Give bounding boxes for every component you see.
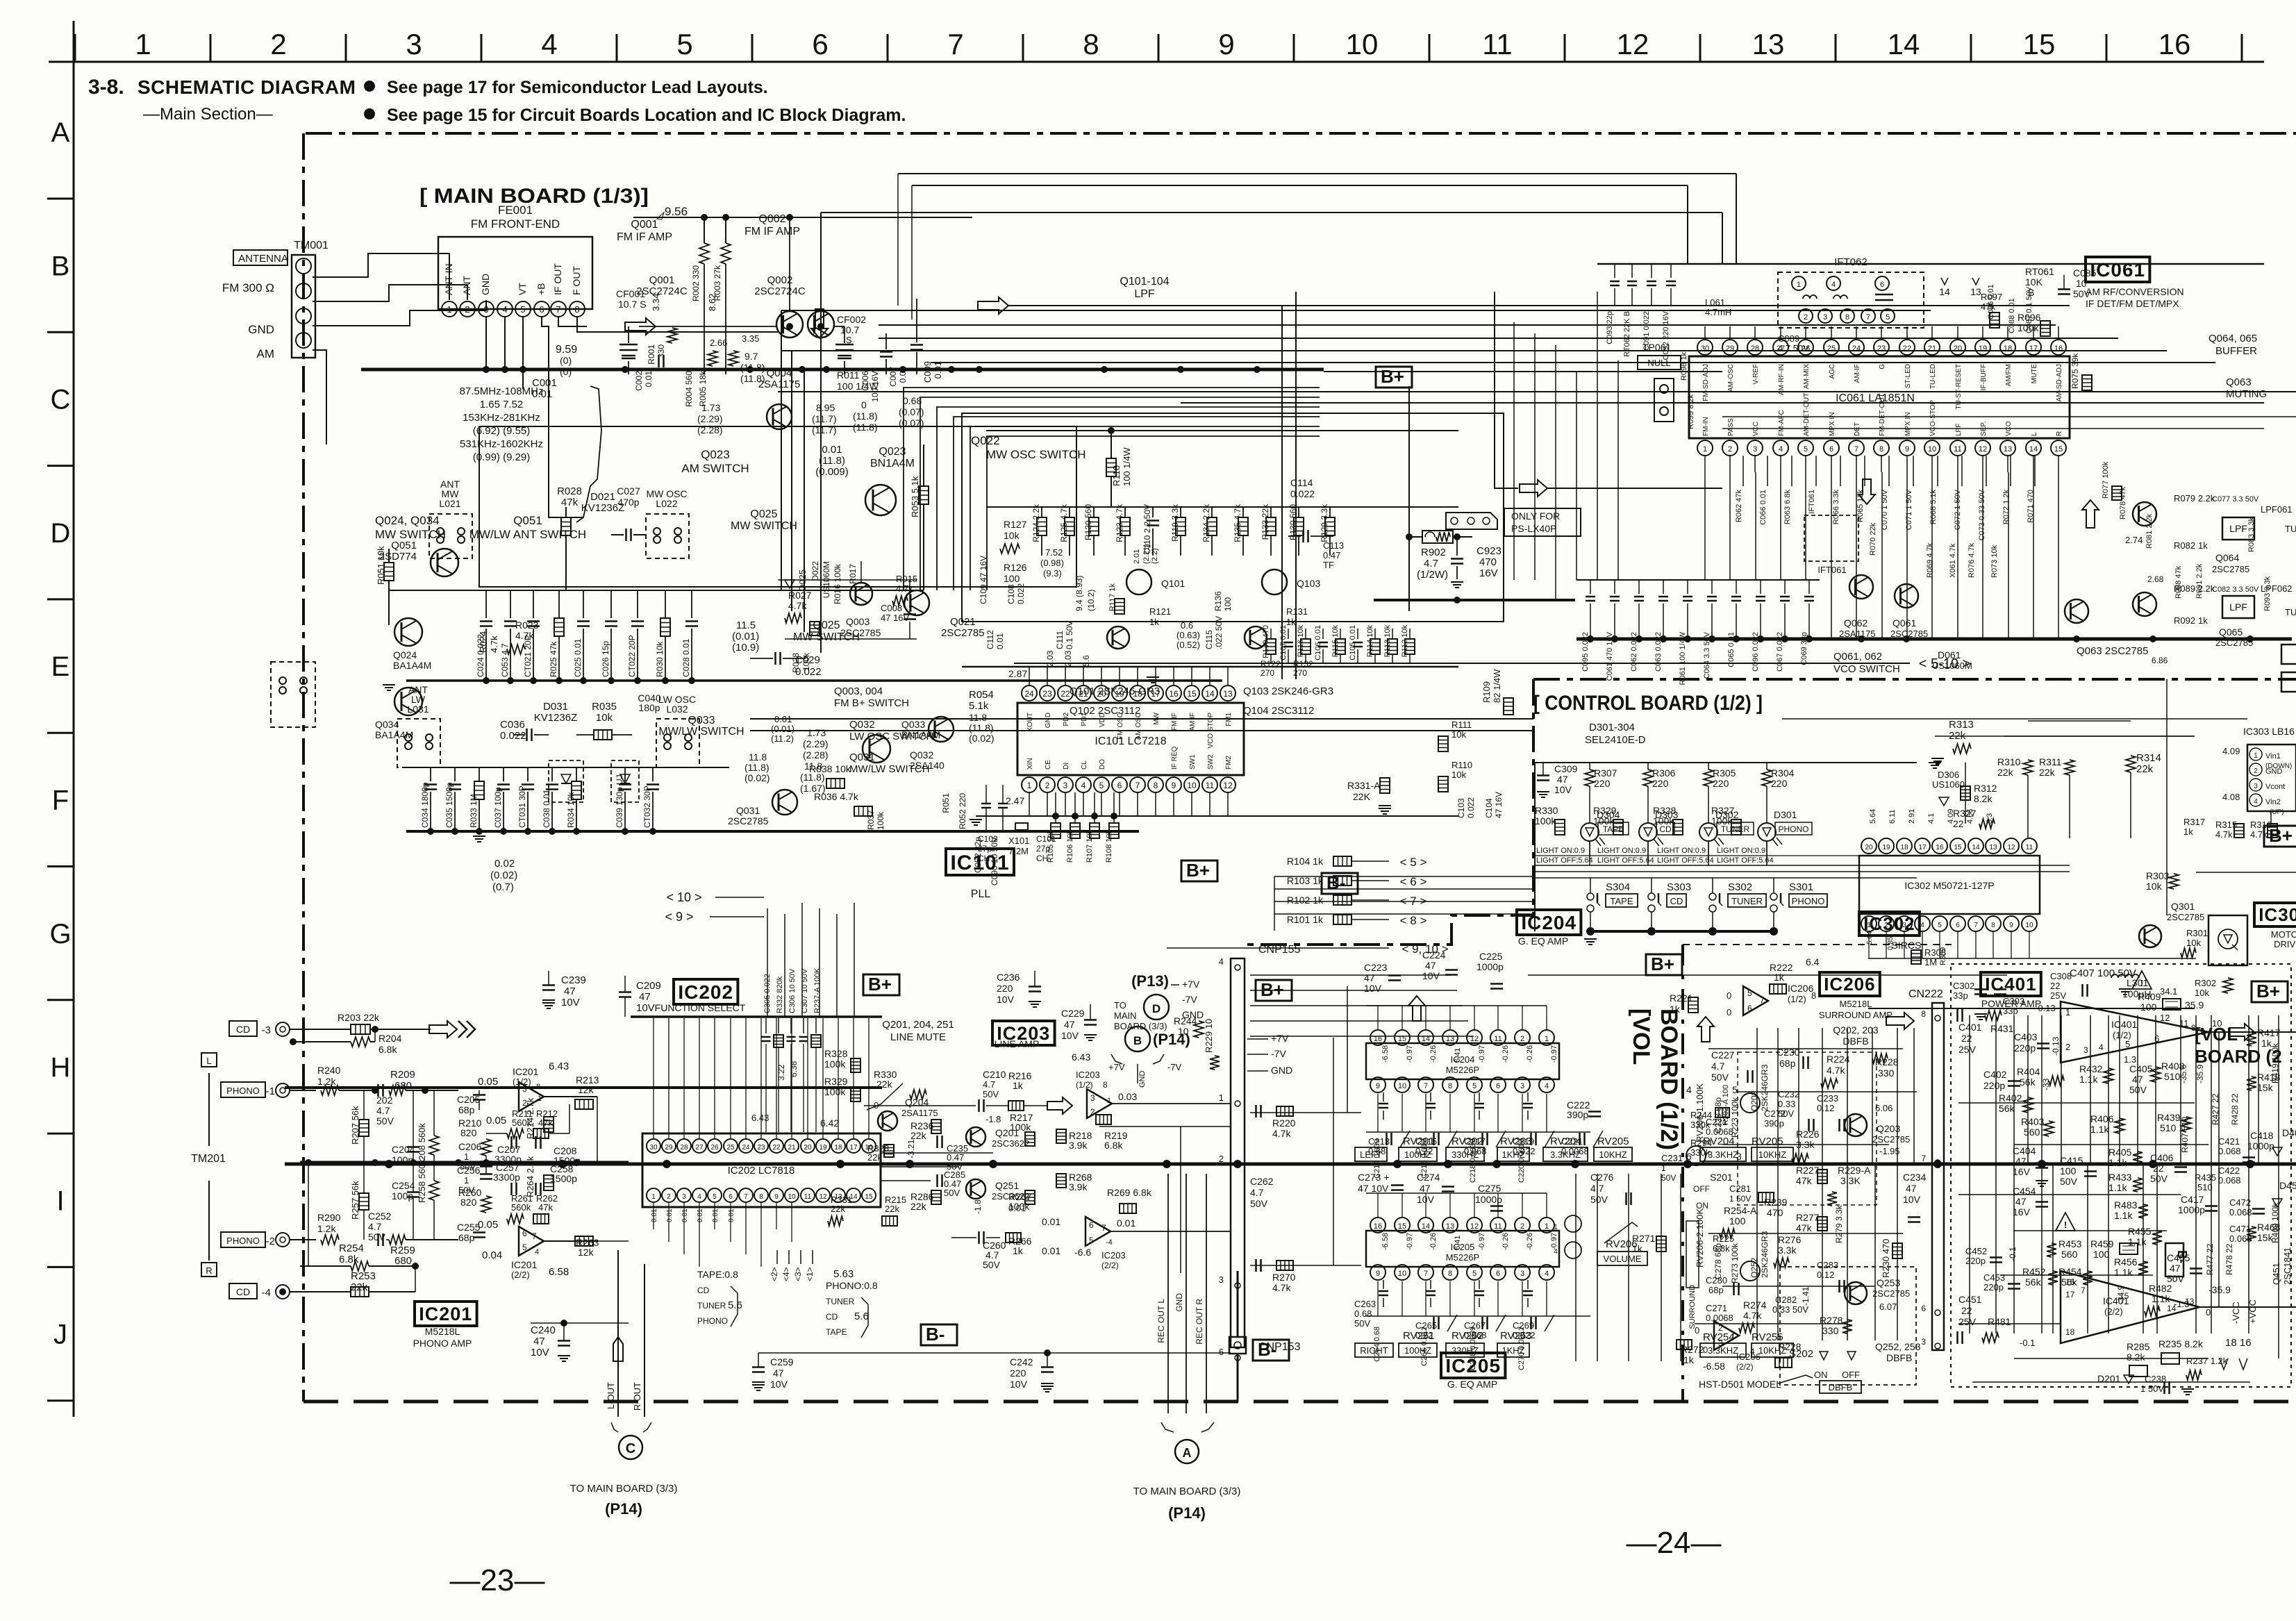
svg-text:TAPE: TAPE — [826, 1327, 847, 1337]
svg-text:RV205: RV205 — [1597, 1136, 1629, 1147]
svg-text:C267: C267 — [1464, 1320, 1486, 1331]
svg-text:29: 29 — [665, 1144, 673, 1152]
svg-text:R078 47k: R078 47k — [2119, 486, 2127, 519]
svg-text:R428 22: R428 22 — [2230, 1093, 2240, 1125]
svg-text:1k: 1k — [1683, 1354, 1695, 1365]
svg-text:16: 16 — [2054, 344, 2063, 353]
svg-text:< 8 >: < 8 > — [1400, 914, 1427, 927]
svg-text:FM-IN: FM-IN — [1702, 417, 1710, 436]
svg-text:R277: R277 — [1796, 1212, 1820, 1223]
svg-text:10V: 10V — [1061, 1030, 1079, 1041]
svg-text:2: 2 — [465, 304, 469, 315]
svg-text:SW1: SW1 — [1189, 754, 1197, 770]
svg-text:23: 23 — [1042, 689, 1052, 699]
svg-text:17: 17 — [1918, 844, 1927, 851]
svg-text:CT022 20P: CT022 20P — [627, 635, 637, 677]
svg-text:47: 47 — [533, 1336, 545, 1347]
svg-text:3.3KHZ: 3.3KHZ — [1708, 1345, 1738, 1356]
svg-text:CNP155: CNP155 — [1258, 944, 1301, 956]
IC401 output feedback wires — [2218, 1032, 2220, 1307]
MAIN BOARD outline left edge — [302, 133, 305, 1402]
svg-text:A: A — [51, 117, 70, 148]
svg-text:R481: R481 — [1988, 1316, 2011, 1327]
component drops row y 850-980 — [485, 590, 487, 618]
svg-text:820: 820 — [460, 1197, 477, 1208]
svg-text:5.64: 5.64 — [1869, 809, 1877, 824]
mid rail y=850 — [389, 590, 924, 591]
transistor Q104 — [1245, 626, 1267, 649]
svg-text:D: D — [1152, 1002, 1161, 1015]
svg-text:R083 3.3k: R083 3.3k — [2247, 517, 2256, 552]
svg-text:(P14): (P14) — [605, 1500, 642, 1518]
svg-text:47: 47 — [2015, 1156, 2027, 1167]
IC303 label box — [2254, 903, 2296, 926]
svg-text:BA1A4M: BA1A4M — [393, 660, 431, 671]
svg-text:MPX IN: MPX IN — [1904, 413, 1912, 436]
svg-text:1: 1 — [1027, 781, 1032, 790]
svg-text:R082: R082 — [2174, 540, 2195, 551]
svg-text:MW: MW — [1153, 712, 1161, 724]
transistor Q001 — [776, 311, 803, 338]
svg-text:0.01: 0.01 — [644, 371, 654, 388]
page frame ruler lines — [73, 21, 75, 1417]
svg-text:1.1k: 1.1k — [2079, 1074, 2098, 1085]
svg-text:(10.2): (10.2) — [1086, 590, 1096, 611]
svg-text:2: 2 — [1520, 1035, 1524, 1043]
svg-text:F OUT: F OUT — [571, 266, 582, 295]
wire IF OUT arrow — [558, 317, 587, 326]
B+ box right edge — [2264, 826, 2296, 847]
svg-text:FM IF AMP: FM IF AMP — [617, 231, 672, 243]
svg-text:TUNER: TUNER — [697, 1301, 726, 1311]
control top rail — [1534, 763, 1536, 931]
IC101 bottom pin row — [1022, 777, 1037, 792]
IC202 right connection wires — [881, 1152, 993, 1154]
svg-text:22k: 22k — [910, 1201, 927, 1212]
svg-text:-0.26: -0.26 — [1526, 1045, 1534, 1063]
svg-text:4: 4 — [1081, 781, 1086, 790]
svg-text:VCO STOP: VCO STOP — [1207, 713, 1215, 749]
svg-text:CL: CL — [1081, 760, 1088, 770]
svg-text:4: 4 — [541, 28, 557, 60]
svg-text:11: 11 — [1482, 28, 1513, 60]
nested L feed bundle to LPF — [904, 388, 1320, 590]
svg-text:7: 7 — [1760, 995, 1765, 1005]
svg-text:100: 100 — [1223, 597, 1233, 611]
svg-text:MUTE: MUTE — [2031, 364, 2038, 384]
svg-text:< 9 >: < 9 > — [665, 910, 693, 924]
svg-text:LW: LW — [411, 694, 426, 705]
svg-text:G. EQ AMP: G. EQ AMP — [1518, 936, 1568, 947]
svg-text:DRIVE: DRIVE — [2274, 939, 2296, 949]
svg-text:-7V: -7V — [1182, 994, 1197, 1005]
svg-text:(9.3): (9.3) — [1043, 568, 1062, 579]
svg-text:0.04: 0.04 — [482, 1249, 502, 1261]
svg-text:R037: R037 — [866, 810, 876, 830]
op-amp IC203 2/2 — [1085, 1217, 1110, 1246]
svg-text:C034 1800p: C034 1800p — [420, 782, 430, 828]
svg-text:0.02: 0.02 — [494, 858, 515, 870]
svg-text:(11.7): (11.7) — [812, 424, 837, 435]
svg-text:0.022: 0.022 — [1466, 797, 1476, 818]
svg-text:(2/2): (2/2) — [2104, 1306, 2123, 1317]
svg-text:1: 1 — [1797, 281, 1801, 289]
svg-text:2SC3622: 2SC3622 — [992, 1138, 1029, 1149]
B P14 connector — [1125, 1026, 1150, 1051]
svg-text:<1>: <1> — [805, 1267, 815, 1281]
svg-text:FE001: FE001 — [498, 203, 533, 217]
svg-text:47: 47 — [639, 991, 651, 1003]
svg-text:R331-A: R331-A — [1347, 780, 1381, 791]
svg-text:12: 12 — [2007, 844, 2015, 851]
svg-text:4.7k: 4.7k — [1272, 1128, 1291, 1139]
svg-text:(0.02): (0.02) — [490, 870, 517, 881]
svg-text:D301-304: D301-304 — [1589, 722, 1635, 733]
bottom component row MW/LW y 1100-1197 — [430, 767, 431, 781]
svg-text:16: 16 — [1374, 1222, 1382, 1231]
svg-text:4.7k: 4.7k — [1272, 1282, 1291, 1293]
svg-text:C077 3.3 50V: C077 3.3 50V — [2212, 495, 2259, 504]
svg-text:1: 1 — [1703, 445, 1707, 454]
svg-text:R230 470: R230 470 — [1881, 1239, 1891, 1278]
svg-text:C404: C404 — [2013, 1145, 2036, 1156]
svg-text:11: 11 — [1494, 1035, 1501, 1043]
svg-text:B+: B+ — [2269, 825, 2293, 846]
svg-text:4: 4 — [1554, 1248, 1558, 1256]
svg-text:BOARD (2: BOARD (2 — [2195, 1046, 2282, 1067]
svg-text:6.43: 6.43 — [549, 1061, 569, 1072]
svg-text:20: 20 — [1954, 344, 1962, 353]
svg-text:R404: R404 — [2017, 1066, 2040, 1077]
inductor L031 dashed box — [397, 719, 440, 767]
svg-text:TU-LED: TU-LED — [1929, 364, 1937, 389]
svg-text:1k: 1k — [1013, 1245, 1024, 1256]
Q031 2SC2785 transistor — [772, 790, 797, 815]
svg-text:R028: R028 — [791, 653, 801, 673]
svg-text:(11.8): (11.8) — [853, 410, 878, 422]
svg-text:27: 27 — [695, 1144, 704, 1152]
svg-text:-0.26: -0.26 — [1526, 1233, 1534, 1250]
svg-text:LPF061: LPF061 — [2261, 504, 2293, 515]
svg-text:6: 6 — [522, 1229, 527, 1238]
svg-text:R121: R121 — [1149, 606, 1171, 617]
IC202 top pin row — [647, 1139, 660, 1153]
svg-text:R051: R051 — [941, 793, 951, 813]
svg-text:26: 26 — [710, 1144, 719, 1152]
svg-text:(P13): (P13) — [1131, 972, 1169, 990]
svg-text:531KHz-1602KHz: 531KHz-1602KHz — [460, 438, 543, 450]
trimmer caps row C265 C267 C269 — [1433, 1317, 1435, 1329]
svg-text:R092: R092 — [2174, 615, 2195, 626]
frequency brace — [576, 386, 601, 522]
svg-text:R227: R227 — [1796, 1165, 1820, 1176]
svg-text:R111: R111 — [1451, 720, 1472, 730]
svg-text:7: 7 — [947, 28, 963, 60]
caps row below IC204 — [1383, 1092, 1384, 1102]
R105-R108 resistors — [1055, 792, 1056, 823]
svg-text:PHONO AMP: PHONO AMP — [413, 1338, 472, 1349]
svg-text:R302: R302 — [2195, 978, 2216, 988]
svg-text:330: 330 — [1822, 1325, 1839, 1336]
svg-text:C307 10 50V: C307 10 50V — [801, 968, 809, 1013]
svg-text:R119 3.3k: R119 3.3k — [1170, 504, 1180, 542]
svg-text:Q024: Q024 — [393, 649, 417, 660]
svg-text:L032: L032 — [666, 704, 688, 715]
bus y864 to control area — [1374, 599, 1575, 601]
CD input jack -3 — [229, 1021, 257, 1036]
svg-text:R030 10k: R030 10k — [655, 641, 665, 677]
svg-text:20: 20 — [804, 1144, 812, 1152]
svg-text:-6.58: -6.58 — [1381, 1233, 1390, 1250]
svg-text:3: 3 — [1753, 445, 1757, 454]
svg-text:16V: 16V — [2013, 1206, 2031, 1217]
svg-text:24: 24 — [742, 1144, 750, 1152]
svg-text:8: 8 — [1921, 1009, 1926, 1019]
svg-text:-7V: -7V — [1167, 1062, 1182, 1072]
LPF subcircuit box — [962, 413, 1504, 622]
svg-text:(0.01): (0.01) — [771, 724, 795, 734]
svg-text:4.09: 4.09 — [1947, 809, 1955, 824]
IC302 area wires — [1935, 735, 2195, 737]
svg-text:100k: 100k — [2018, 322, 2039, 333]
svg-text:5: 5 — [1938, 922, 1942, 929]
svg-text:RV251: RV251 — [1403, 1330, 1435, 1342]
svg-text:B+: B+ — [1651, 954, 1674, 974]
svg-text:C417: C417 — [2181, 1194, 2204, 1205]
svg-text:2.66: 2.66 — [710, 338, 727, 348]
svg-text:Q301: Q301 — [2171, 901, 2195, 912]
svg-text:+B: +B — [535, 283, 547, 295]
svg-text:R316: R316 — [2250, 820, 2272, 830]
svg-text:16: 16 — [2065, 1277, 2075, 1287]
trimmer caps row C213 C215 C217 C219 C221 — [1386, 1133, 1388, 1145]
svg-text:ON: ON — [1814, 1370, 1828, 1380]
svg-text:5: 5 — [522, 1242, 527, 1252]
svg-text:47: 47 — [2170, 1263, 2181, 1274]
svg-text:3: 3 — [1219, 1274, 1224, 1285]
svg-text:MW OSC SWITCH: MW OSC SWITCH — [986, 448, 1086, 461]
svg-text:TAPE: TAPE — [1603, 824, 1624, 834]
svg-text:22: 22 — [772, 1144, 781, 1152]
svg-text:R097: R097 — [1981, 292, 2002, 302]
svg-text:50V: 50V — [983, 1089, 999, 1099]
resistor R002 — [699, 243, 709, 264]
svg-text:LPF: LPF — [2229, 523, 2247, 534]
svg-text:R005 18k: R005 18k — [698, 370, 708, 406]
svg-text:1000p: 1000p — [2247, 1140, 2274, 1152]
svg-text:6.06: 6.06 — [1875, 1103, 1892, 1113]
LED diodes D304 D303 D302 D301 — [1581, 823, 1599, 841]
svg-text:D: D — [51, 518, 71, 549]
svg-text:R456: R456 — [2114, 1256, 2138, 1267]
svg-text:B+: B+ — [1186, 860, 1210, 881]
IC061 label box — [2086, 257, 2149, 282]
IC203 to CNP wires — [1181, 1126, 1231, 1127]
svg-text:2: 2 — [1804, 313, 1808, 322]
svg-text:TM201: TM201 — [191, 1153, 226, 1165]
svg-text:D022: D022 — [810, 561, 820, 581]
svg-text:Q251: Q251 — [995, 1180, 1019, 1191]
svg-text:50V: 50V — [2060, 1176, 2078, 1187]
svg-text:22k: 22k — [2039, 767, 2056, 778]
svg-text:FM 300 Ω: FM 300 Ω — [222, 281, 274, 294]
switch bottom bus — [1590, 930, 1774, 933]
svg-text:R311: R311 — [2039, 756, 2062, 767]
IC061 area top rail — [1597, 263, 2264, 265]
wire into opamp1 — [864, 1105, 976, 1106]
svg-text:0.022: 0.022 — [1016, 583, 1026, 604]
svg-text:330: 330 — [656, 344, 666, 358]
FET Q103 — [1262, 570, 1287, 595]
svg-text:C111: C111 — [1055, 631, 1065, 649]
svg-text:6.8k: 6.8k — [1713, 1243, 1730, 1254]
svg-text:R069 4.7k: R069 4.7k — [1926, 542, 1934, 578]
svg-text:7: 7 — [556, 304, 560, 315]
svg-text:1: 1 — [538, 1095, 542, 1103]
svg-text:(0): (0) — [560, 366, 572, 377]
svg-text:C027: C027 — [617, 485, 640, 497]
svg-text:Q063: Q063 — [2226, 376, 2252, 388]
svg-text:DBFB: DBFB — [1842, 1036, 1868, 1047]
wire AM down — [313, 350, 326, 444]
caps left of IFT062 — [1614, 264, 1615, 278]
svg-text:C206: C206 — [458, 1141, 482, 1152]
svg-text:PHONO: PHONO — [226, 1086, 260, 1096]
bus MW/LW bottom — [406, 830, 1139, 833]
svg-text:10: 10 — [788, 1193, 796, 1201]
svg-text:D301: D301 — [1774, 809, 1797, 820]
svg-text:Q001: Q001 — [631, 219, 658, 231]
svg-text:2.47: 2.47 — [1006, 795, 1024, 806]
svg-text:7: 7 — [1424, 1082, 1428, 1090]
svg-text:6: 6 — [1921, 1304, 1926, 1313]
svg-text:23: 23 — [757, 1144, 765, 1152]
svg-text:25: 25 — [1827, 344, 1836, 353]
svg-text:0.01: 0.01 — [822, 444, 842, 456]
svg-text:24: 24 — [1024, 689, 1034, 699]
svg-text:L: L — [2031, 432, 2038, 436]
svg-text:470: 470 — [1767, 1207, 1783, 1218]
svg-text:R134 2.2k: R134 2.2k — [1201, 504, 1211, 542]
svg-text:CD: CD — [697, 1286, 710, 1295]
FE001 FM FRONT-END box — [438, 237, 592, 309]
svg-text:22k: 22k — [867, 1152, 882, 1163]
CONTROL BOARD outline left jog — [1242, 679, 1533, 945]
svg-text:C112: C112 — [985, 630, 995, 649]
svg-text:(0.02): (0.02) — [744, 772, 770, 783]
svg-text:16: 16 — [1169, 689, 1179, 699]
svg-text:C225: C225 — [1479, 951, 1503, 962]
svg-text:(1.67): (1.67) — [800, 783, 826, 794]
svg-text:PHONO: PHONO — [1792, 896, 1825, 906]
svg-text:IC302: IC302 — [1863, 913, 1915, 934]
svg-text:IC202 LC7818: IC202 LC7818 — [728, 1165, 795, 1177]
wire y250 y267 drops — [1736, 174, 1737, 264]
svg-text:VCO: VCO — [2005, 421, 2013, 436]
op-amp IC201 1/2 — [519, 1082, 544, 1111]
svg-text:0.68: 0.68 — [1354, 1308, 1372, 1319]
svg-text:47k: 47k — [1796, 1222, 1813, 1233]
svg-text:C213: C213 — [1368, 1136, 1390, 1147]
svg-text:4.7: 4.7 — [983, 1079, 995, 1090]
svg-text:-4: -4 — [1106, 1238, 1113, 1247]
svg-text:IF-BUFF: IF-BUFF — [1980, 364, 1988, 390]
svg-text:PD1: PD1 — [1081, 713, 1088, 726]
svg-text:R204: R204 — [378, 1033, 402, 1044]
control matrix verticals — [1589, 841, 1590, 865]
svg-text:4: 4 — [1686, 1084, 1692, 1095]
svg-text:47: 47 — [1425, 960, 1436, 971]
svg-text:GND: GND — [248, 323, 274, 336]
svg-text:10k: 10k — [1451, 770, 1466, 780]
svg-text:GND: GND — [1271, 1065, 1292, 1076]
svg-text:R433: R433 — [2108, 1172, 2132, 1183]
svg-text:10: 10 — [1928, 445, 1936, 454]
svg-text:220p: 220p — [2014, 1042, 2036, 1054]
svg-text:6: 6 — [812, 28, 828, 60]
svg-text:R254: R254 — [339, 1242, 364, 1254]
top ruler column ticks and numbers — [74, 34, 76, 62]
IC061 top pin row — [1697, 340, 1713, 355]
svg-text:9: 9 — [1218, 28, 1234, 60]
svg-text:ANT: ANT — [461, 276, 472, 295]
svg-text:Q033: Q033 — [901, 719, 925, 730]
svg-text:LINE AMP: LINE AMP — [995, 1038, 1040, 1049]
svg-text:22K: 22K — [1353, 791, 1371, 802]
svg-text:E: E — [51, 651, 70, 682]
svg-text:7: 7 — [1921, 1154, 1926, 1163]
svg-text:G. EQ AMP: G. EQ AMP — [1447, 1379, 1497, 1390]
svg-text:6: 6 — [1956, 922, 1960, 929]
svg-text:Q002: Q002 — [767, 274, 793, 286]
svg-text:4: 4 — [2099, 1042, 2104, 1052]
svg-text:20: 20 — [1865, 844, 1873, 851]
svg-text:22: 22 — [1961, 1305, 1972, 1316]
svg-text:1.1k: 1.1k — [2114, 1267, 2133, 1278]
svg-text:25: 25 — [726, 1144, 735, 1152]
B- rotated box IC401 — [2165, 1243, 2183, 1277]
svg-text:13: 13 — [1989, 844, 1997, 851]
svg-text:0.01: 0.01 — [697, 1208, 704, 1222]
svg-text:(DOWN): (DOWN) — [2265, 763, 2292, 770]
svg-text:R115 10k: R115 10k — [1331, 625, 1340, 658]
left ruler row ticks and letters — [47, 198, 74, 200]
svg-text:C269: C269 — [1513, 1320, 1534, 1331]
svg-text:5.3: 5.3 — [1986, 813, 1994, 824]
svg-text:XOUT: XOUT — [1026, 713, 1034, 732]
svg-text:CD: CD — [826, 1312, 838, 1322]
svg-text:TAPE: TAPE — [1611, 896, 1633, 906]
Q064 transistor and LPF061 — [2133, 502, 2156, 526]
svg-text:-0.13: -0.13 — [2035, 1003, 2056, 1013]
svg-text:0.068: 0.068 — [2218, 1175, 2241, 1186]
svg-text:6: 6 — [1880, 281, 1884, 289]
svg-text:(1/2W): (1/2W) — [1417, 569, 1448, 581]
svg-text:MW SWITCH: MW SWITCH — [731, 520, 797, 532]
ground symbols scattered — [383, 684, 395, 685]
svg-text:R131: R131 — [1286, 606, 1308, 617]
svg-text:9.7: 9.7 — [744, 351, 758, 362]
svg-text:R124 2.2k: R124 2.2k — [1031, 504, 1041, 542]
svg-text:220: 220 — [1713, 778, 1729, 789]
svg-text:14: 14 — [1205, 689, 1215, 699]
svg-text:22k: 22k — [1997, 767, 2014, 778]
svg-text:C223: C223 — [1364, 962, 1388, 973]
svg-text:C224: C224 — [1422, 949, 1446, 961]
svg-text:5: 5 — [713, 1193, 717, 1201]
svg-text:R113 10k: R113 10k — [1383, 625, 1392, 658]
svg-text:-6.58: -6.58 — [1381, 1045, 1390, 1063]
